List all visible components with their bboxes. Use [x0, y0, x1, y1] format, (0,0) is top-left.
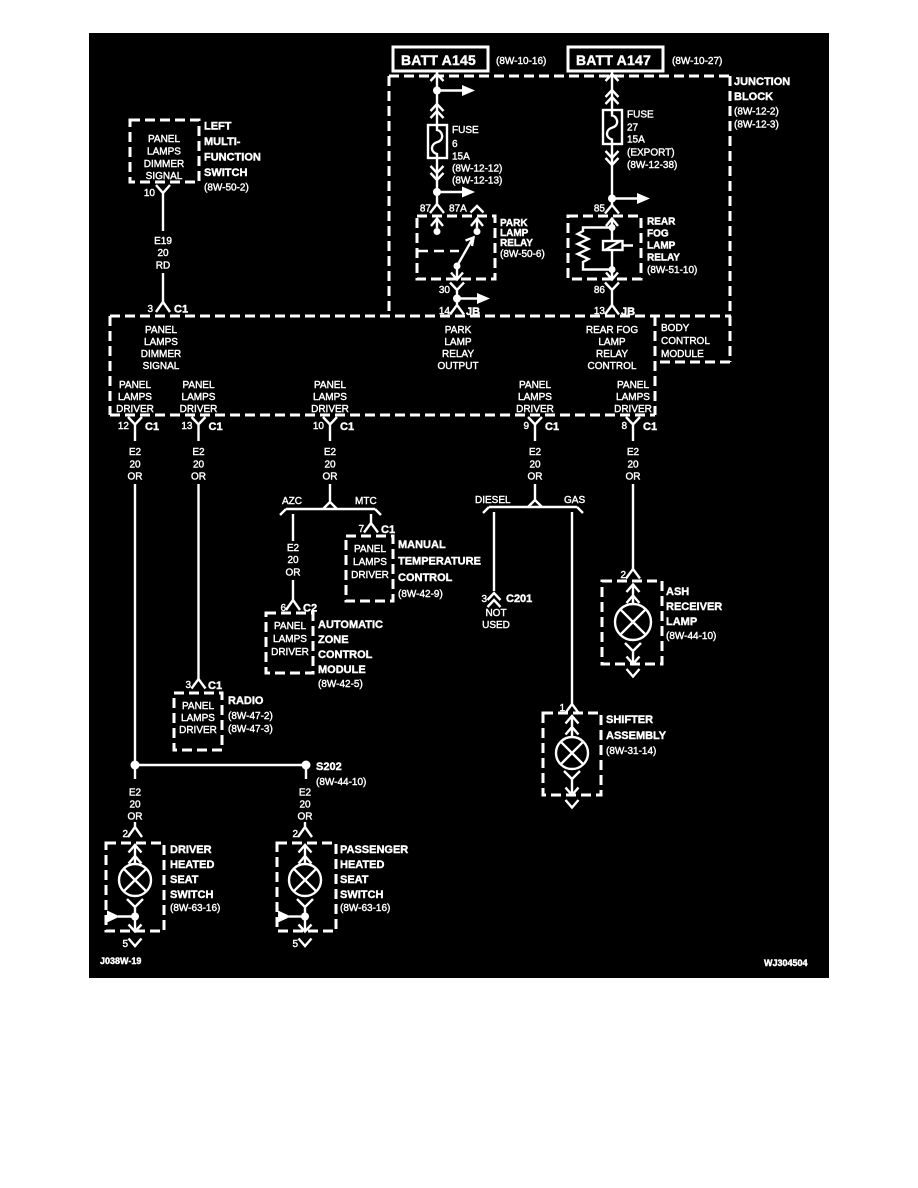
- svg-text:OUTPUT: OUTPUT: [437, 361, 478, 372]
- wire segment to pin 3 C1: [162, 273, 164, 302]
- driver seat switch node dot: [131, 913, 139, 921]
- svg-text:ASH: ASH: [666, 586, 689, 598]
- svg-text:SIGNAL: SIGNAL: [146, 171, 183, 182]
- svg-text:LAMP: LAMP: [444, 337, 472, 348]
- junction dot A145: [433, 87, 441, 95]
- driver seat switch arrow in: [129, 845, 142, 864]
- svg-text:WJ304504: WJ304504: [764, 958, 808, 968]
- svg-text:PANEL: PANEL: [274, 621, 306, 632]
- svg-text:3: 3: [185, 680, 191, 691]
- driver heated seat switch box: [106, 843, 164, 931]
- svg-text:6: 6: [452, 139, 458, 150]
- wire E2 20 OR (AZC): [286, 543, 301, 579]
- svg-text:USED: USED: [482, 620, 510, 631]
- svg-text:(8W-12-12): (8W-12-12): [452, 164, 502, 175]
- svg-text:(8W-12-13): (8W-12-13): [452, 176, 502, 187]
- park lamp relay internal dashed line: [418, 250, 459, 252]
- pin 12 C1: [118, 417, 159, 441]
- AZC/MTC split junction: [280, 502, 381, 515]
- svg-text:C1: C1: [381, 524, 395, 536]
- svg-text:CONTROL: CONTROL: [398, 572, 453, 584]
- ash receiver lamp out fork: [625, 643, 641, 665]
- double chevron up (A147 feed): [606, 90, 619, 104]
- ash receiver lamp label: [666, 586, 722, 642]
- park lamp relay contact 87: [431, 219, 443, 236]
- svg-text:E2: E2: [287, 543, 300, 554]
- pin 3 C1 (radio): [185, 679, 222, 692]
- svg-text:TEMPERATURE: TEMPERATURE: [398, 556, 481, 568]
- radio box: [174, 693, 222, 750]
- fuse F27: [603, 110, 622, 144]
- svg-text:2: 2: [620, 570, 626, 581]
- pin 9 C1: [523, 417, 559, 441]
- wire pin 13 down to radio: [197, 484, 199, 679]
- svg-text:20: 20: [529, 460, 541, 471]
- relay K1 label: [500, 218, 545, 260]
- svg-text:REAR: REAR: [647, 217, 676, 228]
- svg-text:PANEL: PANEL: [314, 380, 346, 391]
- svg-text:7: 7: [358, 524, 364, 535]
- double chevron down below fuse 6: [431, 166, 444, 180]
- automatic zone control module box: [266, 613, 313, 673]
- svg-text:(8W-50-2): (8W-50-2): [204, 183, 249, 194]
- svg-text:(8W-44-10): (8W-44-10): [666, 631, 716, 642]
- svg-text:20: 20: [299, 800, 311, 811]
- svg-text:(8W-63-16): (8W-63-16): [170, 903, 220, 914]
- svg-text:J038W-19: J038W-19: [100, 956, 141, 966]
- wire fuse 27 to relay pin 85: [611, 144, 613, 199]
- shifter assembly label: [606, 714, 667, 757]
- diagram background panel: [89, 33, 829, 978]
- svg-text:PASSENGER: PASSENGER: [340, 844, 408, 856]
- relay K1 park lamp relay box: [417, 216, 495, 279]
- svg-text:OR: OR: [191, 472, 206, 483]
- wire E2 20 OR (passenger seat): [298, 788, 313, 823]
- svg-text:DRIVER: DRIVER: [614, 404, 652, 415]
- node: panel lamps driver 4 (BCM): [516, 380, 554, 415]
- svg-text:(8W-44-10): (8W-44-10): [316, 777, 366, 788]
- svg-text:BATT A145: BATT A145: [401, 52, 476, 68]
- off-page chevron below ash receiver lamp: [627, 669, 640, 677]
- svg-text:E2: E2: [299, 788, 312, 799]
- junction dot above pin 85: [608, 195, 616, 203]
- svg-text:C1: C1: [643, 421, 657, 433]
- pin 7 C1: [358, 523, 395, 536]
- wire MTC branch: [370, 514, 372, 523]
- svg-text:20: 20: [287, 555, 299, 566]
- pin 6 C2: [280, 600, 317, 615]
- svg-text:C1: C1: [545, 421, 559, 433]
- svg-text:SEAT: SEAT: [340, 874, 369, 886]
- battery feed BATT A145: [393, 47, 488, 71]
- passenger seat switch element arrow: [278, 911, 305, 923]
- shifter assembly box: [543, 713, 601, 795]
- svg-text:3: 3: [147, 304, 153, 315]
- svg-text:S202: S202: [316, 761, 342, 773]
- svg-text:(8W-47-2): (8W-47-2): [228, 711, 273, 722]
- svg-text:CONTROL: CONTROL: [661, 336, 710, 347]
- svg-text:SWITCH: SWITCH: [340, 889, 383, 901]
- svg-text:MODULE: MODULE: [318, 664, 366, 676]
- svg-text:LAMP: LAMP: [647, 241, 676, 252]
- driver heated seat switch label: [170, 844, 220, 914]
- svg-text:RECEIVER: RECEIVER: [666, 601, 722, 613]
- driver seat switch element arrow: [107, 911, 135, 923]
- svg-text:DIMMER: DIMMER: [141, 349, 182, 360]
- rear fog relay bottom node dot: [609, 266, 616, 273]
- svg-text:RELAY: RELAY: [442, 349, 474, 360]
- svg-text:SEAT: SEAT: [170, 874, 199, 886]
- svg-text:(8W-47-3): (8W-47-3): [228, 724, 273, 735]
- svg-text:PANEL: PANEL: [182, 701, 214, 712]
- passenger seat switch arrow in: [299, 845, 312, 864]
- svg-text:MODULE: MODULE: [661, 349, 704, 360]
- park lamp relay contact 87A: [471, 219, 483, 236]
- body control module label: [661, 323, 710, 360]
- svg-text:C201: C201: [506, 593, 532, 605]
- svg-text:E2: E2: [627, 447, 640, 458]
- wire GAS branch down to shifter: [571, 512, 573, 704]
- svg-text:(8W-51-10): (8W-51-10): [647, 265, 697, 276]
- svg-text:DRIVER: DRIVER: [179, 725, 217, 736]
- svg-text:27: 27: [627, 123, 639, 134]
- svg-text:2: 2: [292, 829, 298, 840]
- splice S202 bus wire: [135, 764, 306, 766]
- pin 87A: [449, 204, 484, 215]
- svg-text:(8W-12-38): (8W-12-38): [627, 160, 677, 171]
- svg-text:20: 20: [129, 800, 141, 811]
- svg-text:LEFT: LEFT: [204, 121, 232, 133]
- svg-text:RELAY: RELAY: [596, 349, 628, 360]
- radio label: [228, 695, 273, 735]
- wire BATT A147 to fuse 27: [611, 71, 613, 110]
- connector arrow into junction block (A147): [606, 74, 619, 81]
- rear fog relay coil wire: [611, 228, 613, 270]
- svg-text:20: 20: [324, 460, 336, 471]
- pin 86: [594, 283, 619, 306]
- node: park lamp relay output (BCM): [437, 325, 478, 372]
- svg-text:AZC: AZC: [282, 496, 302, 507]
- park lamp relay switch arm: [457, 238, 474, 267]
- pin 5 / off-page chevron (driver): [122, 939, 141, 951]
- relay coil element: [603, 241, 633, 250]
- svg-text:(8W-12-3): (8W-12-3): [734, 120, 779, 131]
- pin 30: [439, 283, 464, 299]
- svg-text:DRIVER: DRIVER: [116, 404, 154, 415]
- branch arrow right below fuse 6: [437, 187, 475, 198]
- splice S202 label: [316, 761, 366, 788]
- svg-text:86: 86: [594, 285, 606, 296]
- svg-text:MULTI-: MULTI-: [204, 136, 241, 148]
- left multi-function switch label: [204, 121, 261, 194]
- svg-text:5: 5: [122, 939, 128, 950]
- pin 2 (passenger heated seat switch): [292, 822, 312, 840]
- svg-text:LAMPS: LAMPS: [353, 557, 387, 568]
- wire E2 20 OR (pin 12): [128, 447, 143, 483]
- svg-text:(8W-31-14): (8W-31-14): [606, 746, 656, 757]
- svg-text:REAR FOG: REAR FOG: [586, 325, 638, 336]
- svg-text:2: 2: [122, 829, 128, 840]
- junction dot node 30: [453, 295, 461, 303]
- branch arrow right from pin 85 node: [612, 193, 650, 204]
- pin 8 C1: [621, 417, 657, 441]
- svg-text:8: 8: [621, 421, 627, 432]
- svg-text:LAMPS: LAMPS: [144, 337, 178, 348]
- manual temperature control box: [346, 536, 393, 601]
- wire E2 20 OR (pin 13): [191, 447, 206, 483]
- svg-text:HEATED: HEATED: [340, 859, 384, 871]
- pin 85: [594, 199, 619, 215]
- svg-text:(8W-50-6): (8W-50-6): [500, 249, 545, 260]
- svg-text:CONTROL: CONTROL: [588, 361, 637, 372]
- fuse F6: [428, 125, 447, 158]
- svg-text:C1: C1: [209, 421, 223, 433]
- junction dot below fuse 6: [433, 188, 441, 196]
- svg-text:E2: E2: [529, 447, 542, 458]
- svg-text:FUSE: FUSE: [452, 125, 479, 136]
- svg-text:CONTROL: CONTROL: [318, 649, 373, 661]
- svg-text:DRIVER: DRIVER: [170, 844, 212, 856]
- svg-text:MANUAL: MANUAL: [398, 539, 446, 551]
- svg-text:BATT A147: BATT A147: [576, 52, 651, 68]
- pin 2 (ash receiver lamp): [620, 569, 640, 581]
- svg-text:E2: E2: [129, 788, 142, 799]
- DIESEL/GAS split junction: [483, 500, 583, 513]
- svg-text:NOT: NOT: [485, 608, 506, 619]
- svg-text:RELAY: RELAY: [647, 253, 680, 264]
- svg-text:DRIVER: DRIVER: [311, 404, 349, 415]
- connector arrow into junction block (A145): [431, 74, 444, 81]
- ash receiver lamp arrow in: [627, 585, 640, 605]
- body control module box: [110, 316, 731, 415]
- svg-text:LAMP: LAMP: [666, 616, 697, 628]
- svg-text:OR: OR: [626, 472, 641, 483]
- branch arrow right from A145 dot: [437, 85, 475, 96]
- automatic zone control module label: [318, 619, 383, 690]
- junction block label: [734, 76, 790, 131]
- svg-text:30: 30: [439, 285, 451, 296]
- branch arrow right from node 30: [457, 293, 490, 304]
- lamp: shifter assembly illumination: [556, 737, 588, 769]
- svg-text:OR: OR: [298, 812, 313, 823]
- wire E2 20 OR (pin 9): [528, 447, 543, 483]
- passenger seat switch node dot: [301, 913, 309, 921]
- svg-text:RADIO: RADIO: [228, 695, 264, 707]
- wire S202 right leg: [305, 765, 307, 779]
- relay K2 rear fog lamp relay box: [568, 216, 641, 279]
- pin 5 / off-page chevron (passenger): [292, 939, 311, 951]
- svg-text:15A: 15A: [627, 135, 645, 146]
- svg-text:PANEL: PANEL: [617, 380, 649, 391]
- lamp: driver heated seat switch illumination: [119, 864, 151, 896]
- svg-text:DRIVER: DRIVER: [516, 404, 554, 415]
- node: panel lamps dimmer signal (BCM): [141, 325, 182, 372]
- svg-text:(8W-10-27): (8W-10-27): [672, 56, 722, 67]
- svg-text:LAMPS: LAMPS: [518, 392, 552, 403]
- svg-text:BLOCK: BLOCK: [734, 91, 773, 103]
- node: panel lamps driver 3 (BCM): [311, 380, 349, 415]
- svg-text:SIGNAL: SIGNAL: [143, 361, 180, 372]
- wire E19 20 RD: [154, 236, 172, 272]
- svg-text:SWITCH: SWITCH: [170, 889, 213, 901]
- svg-text:20: 20: [129, 460, 141, 471]
- pin 13 JB: [594, 305, 635, 318]
- svg-text:PANEL: PANEL: [148, 134, 180, 145]
- svg-text:(8W-63-16): (8W-63-16): [340, 903, 390, 914]
- node: panel lamps driver 5 (BCM): [614, 380, 652, 415]
- svg-text:85: 85: [594, 204, 606, 215]
- svg-text:OR: OR: [323, 472, 338, 483]
- svg-text:(8W-42-9): (8W-42-9): [398, 589, 443, 600]
- svg-text:(8W-10-16): (8W-10-16): [496, 56, 546, 67]
- wire E2 20 OR (pin 8): [626, 447, 641, 483]
- passenger seat switch out fork: [297, 899, 313, 932]
- wire S202 left leg: [134, 765, 136, 779]
- splice dot left (S202): [131, 761, 140, 770]
- pin 87: [420, 192, 444, 215]
- svg-text:20: 20: [157, 248, 169, 259]
- ash receiver lamp box: [602, 581, 662, 664]
- svg-text:10: 10: [313, 421, 325, 432]
- svg-text:C1: C1: [340, 421, 354, 433]
- pin 10: [144, 185, 170, 231]
- svg-text:LAMPS: LAMPS: [118, 392, 152, 403]
- wire DIESEL branch: [493, 512, 495, 591]
- wire fuse 6 to relay pin 87: [436, 158, 438, 192]
- svg-text:PANEL: PANEL: [145, 325, 177, 336]
- svg-text:E2: E2: [192, 447, 205, 458]
- driver seat switch out fork: [127, 899, 143, 932]
- svg-text:15A: 15A: [452, 152, 470, 163]
- passenger heated seat switch label: [340, 844, 408, 914]
- off-page chevron below shifter assembly: [566, 800, 579, 808]
- wire E2 20 OR (driver seat): [128, 788, 143, 823]
- relay K2 label: [647, 217, 697, 277]
- svg-text:ASSEMBLY: ASSEMBLY: [606, 730, 667, 742]
- svg-text:SHIFTER: SHIFTER: [606, 714, 653, 726]
- resistor in rear fog relay: [578, 228, 613, 270]
- pin 1 (shifter assembly): [559, 703, 579, 714]
- svg-text:RELAY: RELAY: [500, 238, 533, 249]
- pin 3 C1: [147, 302, 188, 316]
- connector C201 not used: [481, 593, 532, 631]
- shifter assembly arrow in: [566, 716, 579, 737]
- fuse 6 value label: [452, 125, 502, 187]
- svg-text:20: 20: [627, 460, 639, 471]
- node: rear fog lamp relay control (BCM): [586, 325, 638, 372]
- svg-text:OR: OR: [286, 568, 301, 579]
- wire AZC branch: [292, 514, 294, 541]
- passenger seat switch arrow out bottom: [299, 925, 312, 932]
- svg-text:C1: C1: [174, 304, 188, 316]
- svg-text:9: 9: [523, 421, 529, 432]
- svg-text:(EXPORT): (EXPORT): [627, 148, 675, 159]
- wire pin 8 down to ash receiver lamp: [632, 484, 634, 569]
- svg-text:E19: E19: [154, 236, 172, 247]
- lamp: passenger heated seat switch illumination: [289, 864, 321, 896]
- svg-text:LAMPS: LAMPS: [147, 147, 181, 158]
- svg-text:PANEL: PANEL: [119, 380, 151, 391]
- shifter assembly arrow out bottom: [566, 788, 579, 796]
- rear fog relay arrow out bottom: [606, 270, 618, 281]
- svg-text:LAMPS: LAMPS: [616, 392, 650, 403]
- svg-text:OR: OR: [128, 812, 143, 823]
- svg-text:LAMPS: LAMPS: [181, 713, 215, 724]
- pin 2 (driver heated seat switch): [122, 822, 142, 840]
- wire BATT A145 to fuse 6: [436, 71, 438, 125]
- svg-text:3: 3: [481, 594, 487, 605]
- switch: left multi-function switch box: [130, 120, 199, 182]
- svg-text:DRIVER: DRIVER: [180, 404, 218, 415]
- svg-text:13: 13: [181, 421, 193, 432]
- svg-text:DIMMER: DIMMER: [144, 159, 185, 170]
- svg-text:PARK: PARK: [445, 325, 472, 336]
- svg-text:87A: 87A: [449, 204, 467, 215]
- svg-text:FUNCTION: FUNCTION: [204, 152, 261, 164]
- svg-text:(8W-12-2): (8W-12-2): [734, 107, 779, 118]
- svg-text:PANEL: PANEL: [354, 544, 386, 555]
- battery feed BATT A147: [568, 47, 663, 71]
- svg-text:ZONE: ZONE: [318, 634, 349, 646]
- svg-text:OR: OR: [528, 472, 543, 483]
- svg-text:DRIVER: DRIVER: [351, 570, 389, 581]
- svg-text:LAMPS: LAMPS: [182, 392, 216, 403]
- svg-text:5: 5: [292, 939, 298, 950]
- wire pin 9 down to diesel/gas split: [534, 484, 536, 500]
- svg-text:RD: RD: [156, 261, 170, 272]
- svg-text:DRIVER: DRIVER: [271, 647, 309, 658]
- rear fog relay top node dot: [609, 224, 616, 231]
- fuse 27 value label: [627, 110, 677, 172]
- wire E2 20 OR (pin 10): [323, 447, 338, 483]
- svg-text:AUTOMATIC: AUTOMATIC: [318, 619, 383, 631]
- svg-text:LAMPS: LAMPS: [313, 392, 347, 403]
- park lamp relay arrow out bottom: [451, 266, 463, 280]
- node: panel lamps driver 2 (BCM): [180, 380, 218, 415]
- lamp: ash receiver lamp: [615, 604, 651, 640]
- wire pin 12 down to splice S202: [134, 484, 136, 765]
- svg-text:10: 10: [144, 188, 156, 199]
- svg-text:12: 12: [118, 421, 130, 432]
- node: panel lamps driver 1 (BCM): [116, 380, 154, 415]
- shifter assembly out fork: [564, 771, 580, 796]
- svg-text:C1: C1: [208, 680, 222, 692]
- wire pin 10 down to AZC/MTC split: [329, 484, 331, 502]
- svg-text:E2: E2: [129, 447, 142, 458]
- ash receiver lamp arrow out bottom: [627, 657, 640, 665]
- junction block outline: [389, 76, 730, 362]
- svg-text:20: 20: [193, 460, 205, 471]
- svg-text:LAMP: LAMP: [598, 337, 626, 348]
- svg-text:BODY: BODY: [661, 323, 690, 334]
- svg-text:DIESEL: DIESEL: [475, 495, 511, 506]
- rear fog relay pin 85 arrow in: [606, 219, 618, 228]
- svg-text:PANEL: PANEL: [519, 380, 551, 391]
- svg-text:HEATED: HEATED: [170, 859, 214, 871]
- passenger heated seat switch box: [277, 843, 336, 931]
- park lamp relay common dot: [454, 263, 461, 270]
- svg-text:JUNCTION: JUNCTION: [734, 76, 790, 88]
- pin 13 C1: [181, 417, 222, 441]
- pin 10 C1: [313, 417, 354, 441]
- svg-text:MTC: MTC: [355, 496, 377, 507]
- svg-text:(8W-42-5): (8W-42-5): [318, 679, 363, 690]
- pin 14 JB: [439, 299, 480, 319]
- wire AZC branch lower: [292, 580, 294, 600]
- svg-text:GAS: GAS: [564, 495, 585, 506]
- manual temperature control label: [398, 539, 481, 600]
- double chevron down below fuse 27: [606, 151, 619, 165]
